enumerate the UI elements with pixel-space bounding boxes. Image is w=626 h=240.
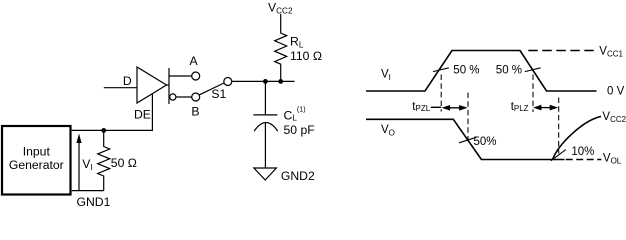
svg-text:VCC2: VCC2 xyxy=(602,111,626,124)
svg-text:RL: RL xyxy=(290,34,304,49)
svg-text:A: A xyxy=(190,54,199,68)
svg-text:tPZL: tPZL xyxy=(412,101,430,113)
svg-text:Generator: Generator xyxy=(9,158,64,172)
svg-text:50 %: 50 % xyxy=(453,64,479,76)
svg-text:B: B xyxy=(191,105,199,119)
svg-text:10%: 10% xyxy=(571,146,594,158)
svg-text:D: D xyxy=(123,74,132,88)
svg-text:DE: DE xyxy=(134,107,151,121)
svg-text:S1: S1 xyxy=(211,87,226,101)
svg-text:CL(1): CL(1) xyxy=(284,104,306,122)
svg-text:VO: VO xyxy=(381,124,395,138)
svg-text:VOL: VOL xyxy=(603,152,622,165)
svg-text:110 Ω: 110 Ω xyxy=(290,49,322,63)
svg-text:50 pF: 50 pF xyxy=(284,123,315,137)
svg-text:VI: VI xyxy=(82,157,92,172)
svg-text:0 V: 0 V xyxy=(607,86,625,98)
svg-text:50%: 50% xyxy=(474,136,497,148)
svg-text:VI: VI xyxy=(381,69,391,83)
svg-text:50 Ω: 50 Ω xyxy=(111,156,137,170)
svg-text:tPLZ: tPLZ xyxy=(511,101,529,113)
svg-text:GND2: GND2 xyxy=(281,169,315,183)
svg-text:Input: Input xyxy=(23,145,51,159)
svg-text:VCC1: VCC1 xyxy=(599,45,623,58)
svg-text:50 %: 50 % xyxy=(496,64,522,76)
svg-text:VCC2: VCC2 xyxy=(268,0,293,15)
svg-text:GND1: GND1 xyxy=(77,195,111,209)
